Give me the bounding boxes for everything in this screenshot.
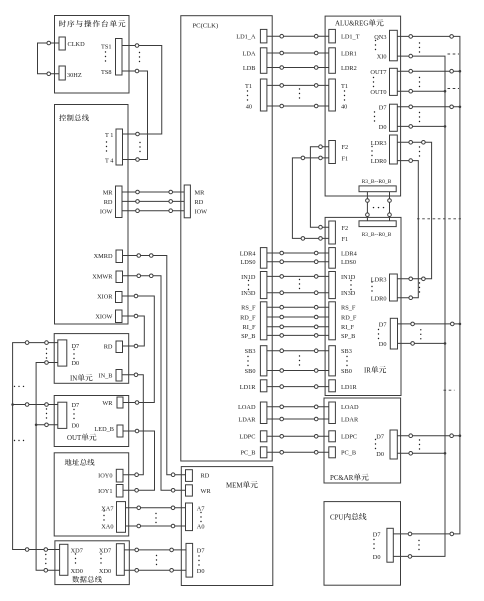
connector TS1-TS8 (116, 39, 123, 76)
connector XMRD (116, 250, 123, 263)
svg-text:R3_B--R0_B: R3_B--R0_B (362, 179, 392, 185)
wire OUT D0 branch (36, 424, 58, 426)
node circles ALU right rows (409, 35, 413, 39)
label SB0 left (245, 368, 256, 375)
node circles MR/RD/IOW (136, 190, 140, 194)
svg-text:D7: D7 (197, 547, 205, 554)
svg-text:TS1: TS1 (101, 43, 112, 50)
dots SB labels right (346, 356, 347, 366)
unit box: PC(CLK) 控制器 (181, 16, 272, 461)
connector MEM D7-D0 (186, 543, 193, 577)
dots CPU D plugs (418, 540, 419, 550)
svg-text:F2: F2 (342, 225, 349, 232)
wire F1 to IR F1 (292, 158, 329, 239)
svg-text:ALU&REG: ALU&REG (335, 21, 368, 28)
label MEM RD (201, 472, 210, 479)
dots left bus lower (14, 440, 24, 441)
svg-text:XMRD: XMRD (94, 253, 113, 260)
svg-text:IN: IN (70, 376, 77, 383)
label ALU F2 (342, 144, 349, 151)
label LDS0 left (240, 259, 255, 266)
svg-text:IOY0: IOY0 (98, 472, 112, 479)
label IR D0 (379, 341, 387, 348)
svg-text:XMWR: XMWR (92, 274, 113, 281)
dots ALU D labels (374, 111, 375, 121)
node circles CLKD/30HZ (47, 41, 51, 45)
connector right box rows 430.8-441.8 (329, 431, 336, 442)
connector IOY0 (116, 469, 123, 482)
connector R3_B--R0_B lower (359, 221, 396, 227)
svg-text:RI_F: RI_F (243, 324, 256, 331)
wire XMWR to MEM WR (123, 276, 186, 491)
svg-text:LED_B: LED_B (94, 426, 114, 433)
connector right box rows 379.8-391.8 (329, 380, 336, 392)
connector PC box rows 379.8-391.8 (260, 380, 267, 392)
label TS8 (101, 69, 112, 76)
dash continuation between ALU and IR (417, 218, 461, 220)
label IR F1 (342, 236, 349, 243)
junction dots left bus (11, 403, 14, 406)
svg-text:SB0: SB0 (341, 368, 352, 375)
connector OUT WR (117, 397, 123, 408)
label R3_B--R0_B lower (362, 232, 392, 238)
svg-text:XA0: XA0 (101, 524, 113, 531)
label LD1R left (240, 384, 257, 391)
label RS_F right (341, 305, 356, 312)
unit box: MEM单元 (181, 467, 272, 586)
node circles T1/T4 (136, 132, 140, 136)
wire XIOR to OUT WR (122, 296, 154, 403)
connector PC box rows 430.8-441.8 (260, 431, 267, 442)
label T4 (105, 157, 114, 164)
label IN D0 (72, 360, 80, 367)
svg-text:RD: RD (201, 472, 210, 479)
dash continuation OUT0 (448, 88, 460, 90)
svg-text:RS_F: RS_F (341, 305, 356, 312)
wire T1 row (267, 84, 329, 86)
title 控制总线 (59, 114, 89, 121)
label XIOW (95, 314, 112, 321)
svg-text:PC_B: PC_B (240, 450, 255, 457)
label IOW left (100, 208, 113, 215)
title CPU内总线 (330, 513, 366, 522)
node circles IN unit (25, 341, 29, 345)
label RD_F left (240, 314, 256, 321)
label IOY1 (98, 488, 112, 495)
dots ALU OUT plugs (419, 77, 420, 87)
svg-text:T 4: T 4 (105, 157, 114, 164)
label CLKD (68, 41, 86, 48)
label PC_B right (341, 450, 356, 457)
label LD1_A left (236, 34, 256, 41)
connector OUT D7-D0 (58, 402, 67, 428)
svg-text:OUT: OUT (67, 435, 82, 442)
dots IN1D labels left (248, 280, 249, 290)
connector right box rows 247.6-268.2 (329, 248, 336, 269)
label RD right (195, 199, 204, 206)
label RI_F right (341, 324, 354, 331)
svg-text:IN_B: IN_B (99, 373, 113, 380)
svg-text:D0: D0 (72, 360, 80, 367)
wire LDS0 row (267, 261, 329, 263)
label 30HZ (67, 72, 82, 79)
label ALU LDR3 (371, 140, 387, 147)
label IN_B (99, 373, 113, 380)
label IOW right (195, 208, 208, 215)
label R3_B--R0_B upper (362, 179, 392, 185)
label RI_F left (243, 324, 256, 331)
wire PC_B row (267, 451, 329, 453)
wire RD_F row (267, 316, 329, 318)
svg-text:SP_B: SP_B (241, 333, 255, 340)
label IOY0 (98, 472, 112, 479)
svg-text:RD_F: RD_F (240, 314, 256, 321)
connector XMWR (116, 271, 123, 283)
wire XIOW to IN RD (122, 316, 144, 346)
wire 40 row (267, 105, 329, 107)
svg-text:D0: D0 (376, 451, 384, 458)
connector IOY1 (116, 485, 123, 498)
label LDPC right (341, 434, 357, 441)
dots IN1D labels right (350, 280, 351, 290)
connector right box rows 301.8-339.8 (329, 302, 336, 340)
dots XA plugs (155, 513, 156, 523)
svg-text:40: 40 (246, 103, 252, 110)
svg-text:F2: F2 (342, 144, 349, 151)
label LDA left (243, 50, 256, 57)
connector right box rows 221-244 (329, 221, 336, 244)
title MEM单元 (226, 481, 258, 490)
svg-text:40: 40 (341, 103, 347, 110)
svg-text:LDS0: LDS0 (240, 259, 255, 266)
connector PC box rows 247.6-268.2 (260, 248, 267, 269)
svg-text:R3_B--R0_B: R3_B--R0_B (362, 232, 392, 238)
label XD0 mid (99, 568, 111, 575)
wire LDR0 to IR LDR0 (397, 161, 418, 298)
wire OUT0 row (397, 90, 445, 92)
wire IN_B to IOY0 (122, 375, 144, 475)
connector T1-T4 (116, 129, 123, 165)
svg-text:RD_F: RD_F (341, 314, 357, 321)
label XMWR (92, 274, 113, 281)
svg-text:LDR4: LDR4 (341, 250, 358, 257)
dash continuation XI0 (448, 53, 460, 55)
unit box: 数据总线 (55, 541, 129, 585)
connector right box rows 271.5-298.6 (329, 272, 336, 299)
dots SB plugs (299, 355, 300, 365)
wire CLKD to 30HZ loop (38, 43, 60, 74)
svg-text:MR: MR (103, 190, 114, 197)
title PC&AR单元 (330, 473, 369, 482)
svg-text:LD1_T: LD1_T (341, 34, 360, 41)
dots MEM A labels (200, 512, 201, 522)
dots PC&AR D labels (375, 439, 376, 449)
connector PC box rows 345.7-375.9 (260, 346, 267, 376)
svg-text:LDR0: LDR0 (371, 295, 387, 302)
connector right box rows 29.4-42.9 (329, 29, 336, 43)
wire XD7 to MEM D7 (124, 549, 186, 551)
svg-text:D7: D7 (373, 532, 381, 539)
label PC&AR D7 (376, 433, 384, 440)
unit box: ALU&REG单元 (325, 16, 401, 196)
svg-text:LOAD: LOAD (238, 404, 256, 411)
dots CPU D labels (373, 539, 374, 549)
svg-text:XA7: XA7 (101, 505, 113, 512)
svg-text:D0: D0 (373, 554, 381, 561)
label MEM D7 (197, 547, 205, 554)
connector XD7-XD0 left (60, 544, 68, 575)
wire R3_B (366, 192, 368, 221)
wire SB3 row (267, 350, 329, 352)
connector PC box rows 47.8-73.3 (260, 48, 267, 74)
dots IR D labels (378, 329, 379, 339)
svg-text:D0: D0 (379, 341, 387, 348)
label RD left (104, 199, 113, 206)
dots SB labels left (247, 356, 248, 366)
node circles IR right rows (409, 277, 413, 281)
label LOAD left (238, 404, 256, 411)
svg-text:PC&AR: PC&AR (330, 475, 354, 482)
wire XMRD to MEM RD (123, 256, 186, 475)
label XIOR (97, 294, 113, 301)
unit box: 地址总线 (54, 453, 129, 536)
wire IN1D row (267, 275, 329, 277)
node circles CPU bus right rows (408, 532, 412, 536)
svg-text:LDAR: LDAR (238, 416, 256, 423)
svg-text:CLKD: CLKD (68, 41, 86, 48)
title IN单元 (70, 374, 93, 383)
svg-text:WR: WR (102, 400, 113, 407)
connector MR/RD/IOW left (116, 186, 123, 218)
label OUT7 (370, 69, 386, 76)
svg-text:LDS0: LDS0 (341, 259, 356, 266)
dots ALU LDR labels (371, 146, 372, 156)
wire OUT7 row (397, 70, 460, 72)
connector ALU OUT7-OUT0 (390, 68, 398, 95)
svg-text:XD0: XD0 (99, 568, 111, 575)
label ALU D0 (379, 124, 387, 131)
svg-text:XD7: XD7 (71, 547, 83, 554)
connector PC box rows 402-423.5 (260, 402, 267, 424)
label SP_B right (341, 333, 355, 340)
dots XD mid plugs (156, 555, 157, 565)
wire MR row (122, 191, 184, 193)
dots IN D labels (73, 349, 74, 359)
svg-text:CPU: CPU (330, 515, 343, 522)
connector right box rows 47.8-73.3 (329, 48, 336, 74)
label T1 (105, 132, 113, 139)
wire F2 to IR F2 (310, 147, 329, 228)
svg-text:LD1R: LD1R (341, 384, 358, 391)
label LDAR right (341, 416, 359, 423)
svg-text:SB0: SB0 (245, 368, 256, 375)
connector MEM A7-A0 (186, 503, 193, 531)
label LDR1 right (341, 50, 357, 57)
wire ALU D0 row (397, 125, 445, 127)
svg-text:SB3: SB3 (341, 348, 352, 355)
connector MEM WR (186, 485, 193, 496)
dots T labels (106, 141, 107, 151)
svg-text:XIOW: XIOW (95, 314, 112, 321)
svg-text:IN3D: IN3D (341, 290, 356, 297)
svg-text:LDR4: LDR4 (240, 250, 257, 257)
wire RD row (122, 200, 184, 202)
svg-text:MEM: MEM (226, 483, 242, 490)
wire IN3D row (267, 292, 329, 294)
wire LDR4 row (267, 252, 329, 254)
connector right box rows 345.7-375.9 (329, 346, 336, 376)
label LDR4 left (240, 250, 257, 257)
wire LED_B to IOY1 (122, 431, 155, 490)
svg-text:LDPC: LDPC (341, 434, 357, 441)
connector R3_B--R0_B upper (359, 186, 396, 192)
node circles TS1/TS8 (135, 44, 139, 48)
title 时序与操作台单元 (59, 20, 125, 27)
connector ALU LDR3-LDR0 (390, 135, 398, 164)
dots ALU QN plugs (419, 42, 420, 52)
junction dots right bus (459, 70, 462, 73)
label RD_F right (341, 314, 357, 321)
label TS1 (101, 43, 112, 50)
label SB3 right (341, 348, 352, 355)
svg-text:IN3D: IN3D (241, 290, 256, 297)
wire LDR3 to IR LDR3 (397, 142, 431, 278)
dots TS plugs (139, 52, 140, 62)
node circles XA rows (137, 506, 141, 510)
dots T row left labels (247, 90, 248, 100)
label IN RD (104, 344, 113, 351)
connector XA7-XA0 (117, 502, 126, 533)
wire LD1_A row (267, 35, 329, 37)
dots XD left labels (75, 553, 76, 563)
svg-text:IOY1: IOY1 (98, 488, 112, 495)
label MEM WR (201, 488, 212, 495)
connector ALU D7-D0 (390, 104, 398, 131)
svg-text:LDR3: LDR3 (371, 140, 387, 147)
connector IR D7-D0 (390, 318, 397, 349)
label LOAD right (341, 404, 359, 411)
label LDR2 right (341, 65, 357, 72)
wire R0_B (389, 192, 391, 221)
svg-text:XD0: XD0 (71, 568, 83, 575)
label MR right (195, 190, 206, 197)
svg-text:D7: D7 (72, 402, 80, 409)
label LD1R right (341, 384, 358, 391)
connector right box rows 402-423.5 (329, 402, 336, 424)
connector PC box rows 301.8-339.8 (260, 302, 267, 340)
label CPU D7 (373, 532, 381, 539)
label RS_F left (241, 305, 256, 312)
svg-text:A7: A7 (197, 505, 205, 512)
svg-text:D0: D0 (379, 124, 387, 131)
svg-text:LDAR: LDAR (341, 416, 359, 423)
wire XD0 to MEM D0 (124, 569, 186, 571)
label XD0 left (71, 568, 83, 575)
svg-text:IR: IR (364, 368, 371, 375)
dots IR LDR plugs (419, 282, 420, 292)
label PC_B left (240, 450, 255, 457)
wire IR D0 row (398, 342, 446, 344)
label XI0 (377, 54, 387, 61)
title IR单元 (364, 366, 386, 375)
wire XA7 to MEM A7 (126, 507, 186, 509)
dots TS labels (105, 51, 106, 61)
svg-text:LDR2: LDR2 (341, 65, 357, 72)
connector right box rows 446.8-457.8 (329, 447, 336, 458)
label SB0 right (341, 368, 352, 375)
label QN3 (374, 34, 386, 41)
connector IN_B (116, 370, 122, 382)
wire IR D7 row (398, 323, 460, 325)
wire SP_B row (267, 334, 329, 336)
label LED_B (94, 426, 114, 433)
svg-text:LDPC: LDPC (239, 434, 255, 441)
wire data bus bit0 (IN-OUT-XD0) (36, 363, 60, 571)
label T1 right (341, 83, 348, 90)
wire PC&AR D7 row (397, 435, 460, 437)
label XA7 (101, 505, 113, 512)
svg-text:MR: MR (195, 190, 206, 197)
dots XD right labels (100, 553, 101, 563)
title PC(CLK) (193, 23, 219, 30)
label IN3D right (341, 290, 356, 297)
connector ALU QN3-XI0 (390, 30, 398, 61)
connector MR/RD/IOW on PC box (184, 185, 190, 218)
wire TS1 to T1 (122, 46, 162, 135)
connector PC box rows 446.8-457.8 (260, 447, 267, 458)
wire data bus bit7 (IN-OUT-XD7) (13, 343, 60, 550)
svg-text:IOW: IOW (100, 208, 113, 215)
svg-text:OUT0: OUT0 (370, 89, 386, 96)
title 地址总线 (65, 459, 95, 466)
wire LDB row (267, 67, 329, 69)
unit box: PC&AR单元 (324, 398, 401, 483)
node circles XD rows (25, 548, 29, 552)
svg-text:XIOR: XIOR (97, 294, 113, 301)
svg-text:IN1D: IN1D (241, 274, 256, 281)
label IN D7 (72, 343, 80, 350)
dots IR LDR labels (371, 281, 372, 291)
label LDR4 right (341, 250, 358, 257)
label MEM A7 (197, 505, 205, 512)
svg-text:RS_F: RS_F (241, 305, 256, 312)
svg-text:PC(CLK): PC(CLK) (193, 23, 219, 30)
svg-text:A0: A0 (197, 524, 205, 531)
svg-text:T1: T1 (245, 83, 252, 90)
svg-text:LDR1: LDR1 (341, 50, 357, 57)
label XD7 mid (99, 547, 111, 554)
label IR D7 (379, 322, 387, 329)
connector IN RD (116, 341, 123, 353)
connector XD7-XD0 right (116, 544, 124, 576)
svg-text:T 1: T 1 (105, 132, 113, 139)
node circles OUT unit (25, 403, 29, 407)
wire RS_F row (267, 306, 329, 308)
wire ALU D7 row (397, 106, 460, 108)
wire PC&AR D0 row (397, 452, 445, 454)
svg-text:D7: D7 (72, 343, 80, 350)
label IN1D left (241, 274, 256, 281)
wire LDPC row (267, 435, 329, 437)
svg-text:LOAD: LOAD (341, 404, 359, 411)
label ALU LDR0 (371, 158, 387, 165)
label LDPC left (239, 434, 255, 441)
wire bus D0 right vertical (XI0) (393, 56, 445, 556)
label OUT D7 (72, 402, 80, 409)
label MEM D0 (197, 568, 205, 575)
connector XIOW (116, 310, 123, 323)
svg-text:D7: D7 (376, 433, 384, 440)
